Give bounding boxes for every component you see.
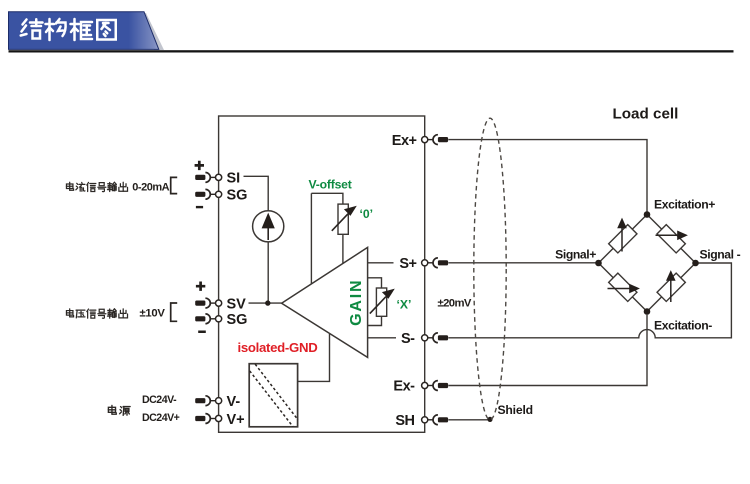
svg-text:S+: S+ <box>399 256 416 272</box>
svg-text:isolated-GND: isolated-GND <box>238 340 318 355</box>
svg-text:‘X’: ‘X’ <box>397 297 412 311</box>
wire V-offset top <box>311 193 343 204</box>
wire SV to amplifier input <box>249 302 282 304</box>
banner shadow <box>139 13 164 50</box>
terminal S- plug <box>422 333 449 343</box>
svg-text:Signal -: Signal - <box>700 247 741 261</box>
wire Ex- from bridge bottom <box>448 315 647 386</box>
svg-text:V+: V+ <box>227 412 245 428</box>
strain gauge R3 (bottom-left) <box>609 273 637 301</box>
terminal V+ plug <box>195 414 222 424</box>
terminal SG plug (current) <box>195 189 222 199</box>
wire S+ to bridge left <box>448 262 598 264</box>
wire Ex+ to bridge top <box>448 140 647 212</box>
svg-text:V-offset: V-offset <box>309 178 352 192</box>
node bridge top <box>644 211 651 218</box>
node bridge left <box>595 260 602 267</box>
terminal Ex- plug <box>422 381 449 391</box>
terminal Ex+ plug <box>422 135 449 145</box>
op-amp GAIN triangle <box>282 247 368 357</box>
banner blue parallelogram <box>9 12 159 50</box>
bracket voltage group <box>171 303 178 321</box>
current source U1 <box>253 211 284 242</box>
svg-text:±20mV: ±20mV <box>438 297 472 309</box>
potentiometer gain 'X' <box>376 288 386 316</box>
wire V-offset left leg <box>310 193 312 284</box>
svg-text:SV: SV <box>227 296 247 312</box>
label 电流信号输出 <box>66 182 127 191</box>
bridge edge top-right <box>647 215 696 264</box>
svg-text:SG: SG <box>227 187 248 203</box>
wire S+ output <box>368 262 394 264</box>
terminal SG2 plug <box>195 314 222 324</box>
svg-text:Load cell: Load cell <box>613 106 679 123</box>
terminal V- plug <box>195 396 222 406</box>
bracket current group <box>171 177 178 193</box>
DC-DC isolation converter <box>249 364 297 427</box>
plus sign current <box>195 161 204 170</box>
wire DC-DC to amplifier <box>298 334 330 381</box>
terminal SV plug <box>195 298 222 308</box>
terminal SI plug <box>195 173 222 183</box>
wire V-offset bottom leg <box>342 234 344 264</box>
svg-text:Shield: Shield <box>498 403 533 417</box>
banner title 结构框图 <box>21 19 116 40</box>
bridge edge top-left <box>599 215 648 264</box>
svg-text:S-: S- <box>401 331 415 347</box>
wire SI to current source <box>244 176 269 211</box>
svg-text:Excitation-: Excitation- <box>654 319 712 333</box>
strain gauge R4 (bottom-right) <box>657 273 685 301</box>
plus sign voltage <box>196 282 205 291</box>
svg-text:DC24V-: DC24V- <box>142 394 177 406</box>
bridge edge bottom-left <box>599 263 648 312</box>
svg-text:V-: V- <box>227 394 241 410</box>
wire gain feedback bottom <box>368 316 382 325</box>
svg-text:‘0’: ‘0’ <box>360 207 374 221</box>
node SV junction <box>265 300 270 305</box>
svg-text:SG: SG <box>227 312 248 328</box>
node bridge right <box>692 260 699 267</box>
svg-text:Ex-: Ex- <box>393 379 415 395</box>
svg-text:SH: SH <box>395 413 414 429</box>
bridge edge bottom-right <box>647 263 696 312</box>
potentiometer V-offset '0' <box>338 204 348 234</box>
svg-text:Ex+: Ex+ <box>392 133 417 149</box>
wire SH shield <box>448 419 490 421</box>
svg-text:GAIN: GAIN <box>348 279 365 326</box>
minus sign voltage <box>198 331 206 334</box>
svg-text:DC24V+: DC24V+ <box>142 412 180 424</box>
svg-text:Signal+: Signal+ <box>555 247 596 261</box>
wire gain feedback top <box>368 278 382 288</box>
wire current source to SV node <box>267 241 269 303</box>
header rule <box>9 50 734 52</box>
label 电源 <box>108 405 130 415</box>
svg-text:SI: SI <box>227 170 241 186</box>
svg-text:Excitation+: Excitation+ <box>654 198 715 212</box>
terminal SH plug <box>422 415 449 425</box>
wire S- output <box>368 337 396 339</box>
strain gauge R2 (top-right) <box>657 225 685 253</box>
node shield dot <box>487 417 492 422</box>
main module box <box>219 116 425 432</box>
wire S- return from bridge right <box>448 263 731 338</box>
label 电压信号输出 <box>66 309 127 318</box>
node bridge bottom <box>644 308 651 315</box>
svg-text:0-20mA: 0-20mA <box>132 181 169 193</box>
strain gauge R1 (top-left) <box>609 225 637 253</box>
terminal S+ plug <box>422 258 449 268</box>
minus sign current <box>196 206 203 208</box>
cable shield ellipse <box>474 118 506 420</box>
svg-text:±10V: ±10V <box>140 308 166 320</box>
